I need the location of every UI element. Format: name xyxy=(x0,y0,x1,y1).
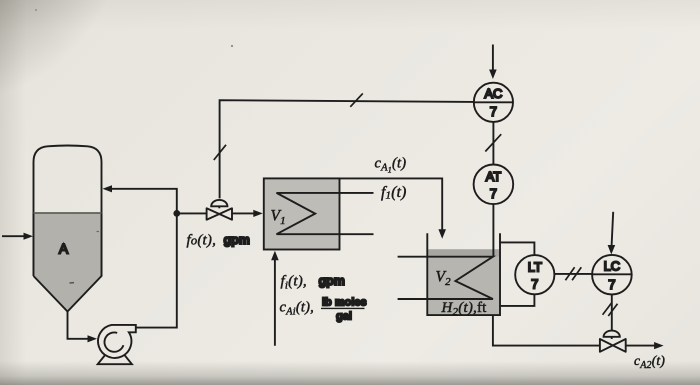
control valve cA2 body xyxy=(600,339,626,352)
photo speck xyxy=(35,9,37,11)
svg-text:lb moles: lb moles xyxy=(322,296,367,308)
vessel V2 liquid fill xyxy=(428,249,499,314)
svg-text:gpm: gpm xyxy=(224,233,250,247)
label cA1(t) xyxy=(375,155,407,174)
photo speck xyxy=(231,45,233,47)
signal slash AC-AT xyxy=(485,134,501,151)
svg-text:LC: LC xyxy=(604,259,621,274)
LT lower tap wire xyxy=(500,294,534,306)
LT upper tap wire xyxy=(500,242,534,255)
label V2 xyxy=(436,269,452,289)
controller AC7 xyxy=(474,83,513,122)
control valve fo actuator dome xyxy=(211,200,227,208)
double slash LT-LC xyxy=(565,267,581,280)
transmitter AT7 xyxy=(474,165,514,205)
setpoint arrow into LC xyxy=(608,212,616,255)
svg-text:fi(t),: fi(t), xyxy=(281,273,307,291)
label cA2(t) xyxy=(634,353,665,371)
vessel V2 walls xyxy=(427,233,500,315)
mark near tank wall xyxy=(97,231,100,233)
vessel V1 flow zigzag xyxy=(277,193,374,234)
tank A liquid fill xyxy=(34,213,102,312)
svg-text:AT: AT xyxy=(486,169,502,184)
label f1(t) xyxy=(381,184,406,202)
double slash LC-valve xyxy=(603,303,618,316)
svg-text:AC: AC xyxy=(484,86,502,101)
svg-text:7: 7 xyxy=(531,277,538,292)
pump P xyxy=(98,325,136,364)
svg-text:gpm: gpm xyxy=(319,274,345,288)
controller LC7 xyxy=(592,255,632,295)
tank A outlet wire to pump xyxy=(68,312,98,343)
label fi(t), gpm xyxy=(281,273,345,291)
svg-text:LT: LT xyxy=(528,260,542,275)
svg-text:7: 7 xyxy=(490,104,497,119)
wire junction to valve xyxy=(179,212,207,214)
svg-text:fo(t),: fo(t), xyxy=(187,233,217,249)
control valve cA2 actuator dome xyxy=(604,331,620,339)
signal wire AC to AT xyxy=(492,122,494,165)
wire cA1 from V1 top to V2 with arrow xyxy=(340,178,447,238)
signal slash on horizontal xyxy=(350,93,363,106)
svg-text:gal: gal xyxy=(336,311,352,323)
svg-text:cA1(t): cA1(t) xyxy=(375,155,407,174)
wire valve to V1 with arrow xyxy=(232,210,263,217)
label fo(t), gpm xyxy=(187,233,250,249)
recycle wire into tank A top xyxy=(103,185,177,213)
svg-text:H2(t),ft: H2(t),ft xyxy=(441,300,488,318)
tank A outline xyxy=(34,146,102,277)
vessel V2 flow zigzag xyxy=(398,257,493,299)
signal wire LT to LC xyxy=(554,273,592,275)
signal slash on vertical xyxy=(214,145,226,160)
svg-text:A: A xyxy=(59,241,69,257)
label A xyxy=(59,241,69,257)
svg-text:7: 7 xyxy=(490,186,497,201)
label H2(t),ft xyxy=(441,300,488,318)
svg-text:cAi(t),: cAi(t), xyxy=(280,300,315,318)
mark in tank A xyxy=(70,282,75,284)
pump discharge wire to junction xyxy=(136,214,177,328)
transmitter LT7 xyxy=(515,255,554,294)
V2 outlet wire through valve with arrow xyxy=(493,315,664,349)
label cAi(t), lb moles/gal xyxy=(280,296,367,322)
junction node xyxy=(173,210,180,217)
control valve fo body xyxy=(207,208,232,219)
signal wire valve to AC xyxy=(220,100,474,198)
svg-text:7: 7 xyxy=(608,277,615,292)
label V1 xyxy=(271,208,286,228)
vessel V1 box xyxy=(264,178,340,249)
svg-text:cA2(t): cA2(t) xyxy=(634,353,665,371)
AT sensing dip line into V2 xyxy=(492,204,494,257)
feed arrow fi into V1 xyxy=(271,251,279,346)
svg-text:f1(t): f1(t) xyxy=(381,184,406,202)
signal wire LC to valve xyxy=(611,295,613,331)
feed wire into tank A xyxy=(2,233,33,240)
setpoint arrow into AC xyxy=(489,45,497,80)
